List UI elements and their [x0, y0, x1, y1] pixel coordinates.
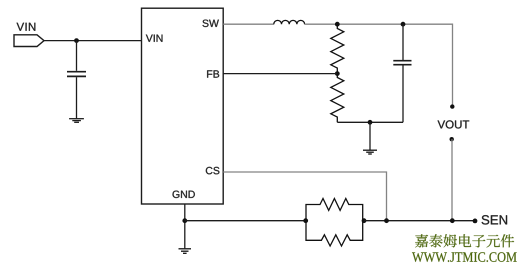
- wire CS: [223, 172, 386, 221]
- wire inductor to node A: [305, 23, 338, 25]
- pin label GND: [173, 191, 195, 198]
- wire C1 top lead: [76, 41, 78, 71]
- ground under C1: [69, 119, 84, 123]
- wire GND pin stem: [184, 204, 186, 248]
- inductor L1: [274, 20, 305, 24]
- capacitor C2: [393, 61, 411, 65]
- watermark url text: [412, 252, 517, 262]
- pin label SW: [202, 20, 218, 27]
- junction GND node: [182, 218, 187, 223]
- pin label FB: [207, 70, 219, 77]
- wire node A to node B: [337, 23, 403, 25]
- wire SEN rail left: [185, 220, 306, 222]
- wire SEN rail mid: [364, 220, 475, 222]
- pin label CS: [206, 167, 220, 174]
- junction CS node: [384, 218, 389, 223]
- ground under divider: [363, 150, 377, 154]
- input port VIN: [14, 35, 44, 47]
- resistor R1: [331, 24, 344, 73]
- pin label VIN: [146, 35, 163, 42]
- net label SEN: [482, 215, 507, 224]
- resistor R2: [331, 74, 344, 123]
- node VOUT terminal dot: [450, 104, 454, 108]
- junction node FB: [335, 71, 340, 76]
- junction R3R4 right node: [362, 218, 367, 223]
- net label VOUT: [438, 120, 470, 128]
- node VOUT lower terminal dot: [450, 137, 454, 141]
- wire ground stem divider: [369, 122, 371, 150]
- junction node VIN / C1: [74, 38, 79, 43]
- resistor R4 bottom parallel branch: [306, 221, 363, 246]
- wire VIN input to IC: [44, 40, 142, 42]
- node SEN terminal dot: [473, 219, 478, 224]
- junction node A: [335, 22, 340, 27]
- watermark chinese text: [415, 234, 514, 247]
- junction R3R4 left node: [303, 218, 308, 223]
- net label VIN: [17, 23, 36, 31]
- wire SW pin to inductor: [223, 23, 274, 25]
- wire C2 top lead: [402, 24, 404, 60]
- junction VOUT SEN node: [450, 218, 455, 223]
- wire VOUT to SEN rail: [451, 139, 453, 221]
- wire node B to VOUT corner: [403, 24, 453, 106]
- junction node B: [401, 22, 406, 27]
- ground under GND pin: [179, 249, 192, 254]
- junction divider ground node: [368, 120, 373, 125]
- resistor R3 top parallel branch: [306, 199, 363, 221]
- capacitor C1: [67, 72, 86, 77]
- wire divider bottom rail: [337, 121, 403, 123]
- wire C2 bottom lead: [402, 65, 404, 122]
- wire C1 bottom lead: [76, 77, 78, 119]
- wire FB: [223, 73, 337, 75]
- IC U1: [142, 8, 224, 204]
